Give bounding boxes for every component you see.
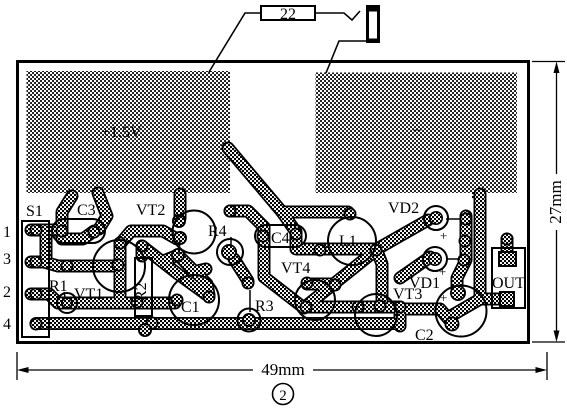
- svg-text:+1.5V: +1.5V: [101, 124, 142, 141]
- svg-text:VT2: VT2: [136, 202, 165, 219]
- svg-text:4: 4: [3, 316, 11, 333]
- svg-text:2: 2: [279, 388, 287, 404]
- svg-text:1: 1: [3, 224, 11, 241]
- svg-text:R1: R1: [49, 278, 68, 295]
- svg-text:+: +: [439, 264, 446, 279]
- svg-text:R4: R4: [208, 223, 227, 240]
- svg-text:2: 2: [3, 284, 11, 301]
- svg-text:VT1: VT1: [74, 286, 103, 303]
- svg-text:+: +: [440, 290, 447, 305]
- svg-text:VT3: VT3: [393, 286, 422, 303]
- svg-text:C3: C3: [77, 202, 96, 219]
- svg-text:3: 3: [3, 251, 11, 268]
- svg-text:27mm: 27mm: [546, 180, 565, 223]
- svg-text:R2: R2: [133, 282, 150, 301]
- svg-text:VT4: VT4: [281, 260, 310, 277]
- svg-text:C1: C1: [181, 299, 200, 316]
- svg-text:C4: C4: [271, 230, 290, 247]
- svg-text:C2: C2: [415, 327, 434, 344]
- svg-text:VD2: VD2: [388, 200, 419, 217]
- svg-text:49mm: 49mm: [261, 360, 304, 379]
- svg-text:22: 22: [280, 6, 296, 23]
- svg-text:–: –: [412, 121, 422, 138]
- svg-text:+: +: [440, 228, 447, 243]
- svg-text:S1: S1: [26, 203, 43, 220]
- svg-text:R3: R3: [255, 298, 274, 315]
- svg-text:L1: L1: [339, 233, 357, 250]
- svg-text:OUT: OUT: [492, 275, 525, 292]
